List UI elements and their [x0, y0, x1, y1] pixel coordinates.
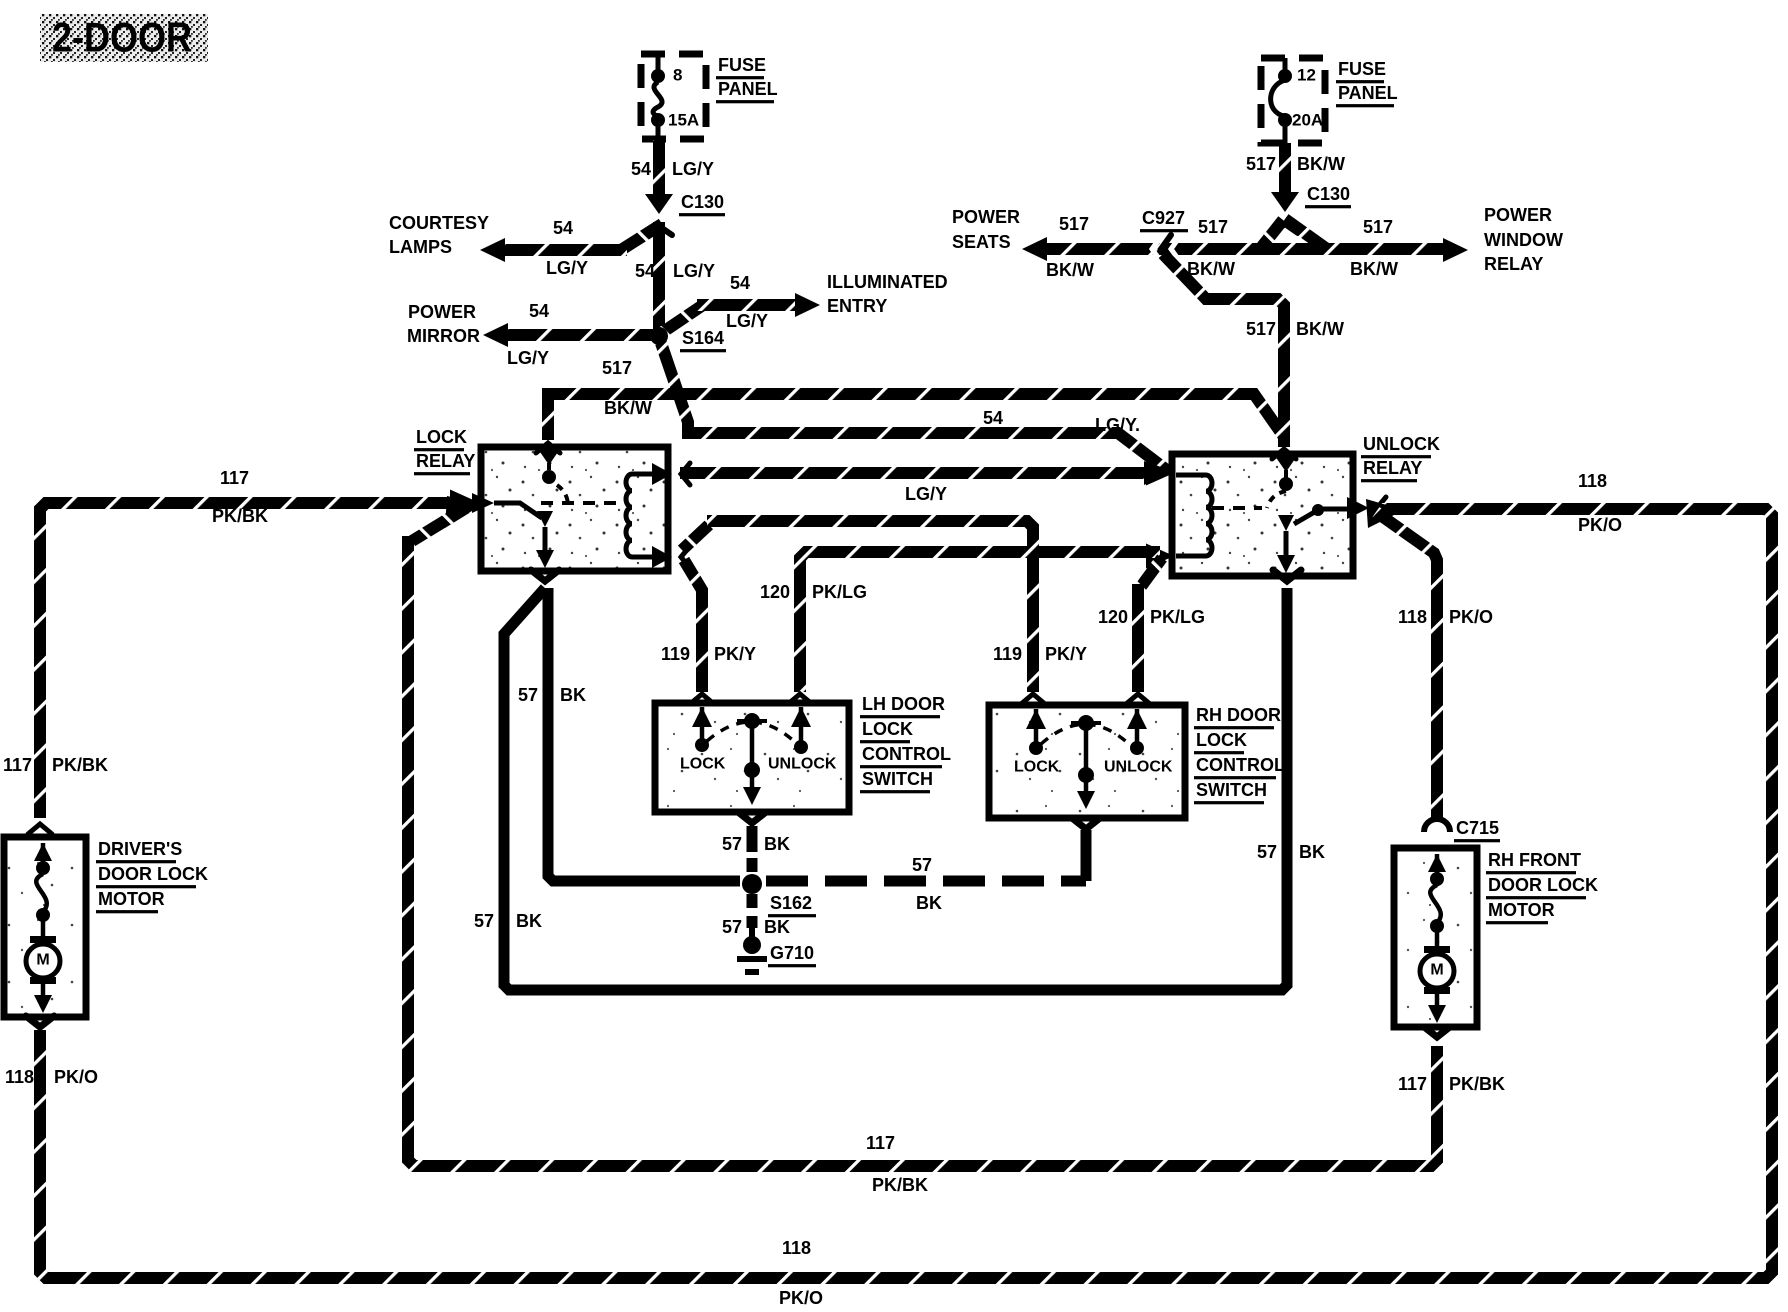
svg-text:G710: G710	[770, 943, 814, 963]
svg-text:PK/LG: PK/LG	[1150, 607, 1205, 627]
svg-text:LOCK: LOCK	[680, 756, 726, 773]
lock relay coil	[541, 474, 662, 557]
LH switch LOCK contact	[680, 707, 726, 773]
wire 54 LG/Y to courtesy lamps	[389, 213, 662, 278]
connector C130 (right)	[1271, 184, 1351, 233]
svg-text:S162: S162	[770, 893, 812, 913]
wire 118 PK/O unlock relay to RH front door lock motor via C715	[1366, 499, 1493, 818]
svg-text:POWER: POWER	[1484, 205, 1552, 225]
RH front door lock motor box	[1394, 848, 1477, 1027]
lock relay right-top pin (54)	[652, 463, 690, 485]
svg-text:POWER: POWER	[952, 207, 1020, 227]
svg-text:BK/W: BK/W	[1297, 154, 1345, 174]
svg-text:118: 118	[782, 1238, 811, 1258]
unlock relay left-bottom pin arrow	[1146, 544, 1174, 569]
svg-text:COURTESY: COURTESY	[389, 213, 489, 233]
svg-text:C130: C130	[1307, 184, 1350, 204]
svg-text:LOCK: LOCK	[1196, 730, 1247, 750]
svg-text:PK/BK: PK/BK	[1449, 1074, 1505, 1094]
svg-text:BK: BK	[516, 911, 542, 931]
connector C130 (left)	[645, 192, 725, 235]
svg-text:517: 517	[1246, 154, 1276, 174]
LH switch UNLOCK contact	[768, 707, 837, 773]
svg-text:RELAY: RELAY	[1484, 254, 1543, 274]
lock relay top pin (517)	[536, 443, 560, 484]
RH door lock control switch box	[989, 705, 1185, 818]
svg-text:POWER: POWER	[408, 302, 476, 322]
svg-text:LG/Y: LG/Y	[673, 261, 715, 281]
RH switch LOCK contact	[1014, 709, 1060, 776]
svg-text:BK: BK	[764, 917, 790, 937]
svg-text:MIRROR: MIRROR	[407, 326, 480, 346]
svg-text:LOCK: LOCK	[1014, 759, 1060, 776]
unlock relay top pin (517/54)	[1272, 449, 1297, 491]
svg-text:LH DOOR: LH DOOR	[862, 694, 945, 714]
svg-text:LG/Y: LG/Y	[726, 311, 768, 331]
wire 119 PK/Y lock relay to LH and RH switch LOCK pins	[661, 521, 1087, 704]
svg-text:ENTRY: ENTRY	[827, 296, 887, 316]
unlock relay contact arm	[1267, 491, 1348, 573]
svg-text:119: 119	[993, 644, 1022, 664]
svg-text:BK/W: BK/W	[1187, 259, 1235, 279]
svg-text:PK/O: PK/O	[1578, 515, 1622, 535]
fuse panel (right) dashed box	[1261, 58, 1325, 143]
svg-text:LG/Y.: LG/Y.	[1095, 415, 1140, 435]
svg-text:PK/BK: PK/BK	[212, 506, 268, 526]
splice S164	[650, 327, 726, 352]
svg-text:517: 517	[1363, 217, 1393, 237]
svg-text:C927: C927	[1142, 208, 1185, 228]
svg-text:LG/Y: LG/Y	[507, 348, 549, 368]
svg-text:SEATS: SEATS	[952, 232, 1011, 252]
svg-text:120: 120	[760, 582, 790, 602]
wire 57 BK S162 to RH switch (dashed run)	[766, 818, 1100, 913]
svg-text:20A: 20A	[1292, 110, 1323, 129]
fuse 8 15A symbol	[651, 54, 699, 139]
svg-text:WINDOW: WINDOW	[1484, 230, 1563, 250]
label LOCK RELAY	[414, 427, 475, 475]
svg-text:BK/W: BK/W	[1350, 259, 1398, 279]
wire 57 BK S162 down to ground	[722, 894, 790, 937]
svg-text:M: M	[36, 952, 49, 969]
wire 54 LG/Y C130 to splice S164	[635, 222, 715, 334]
svg-text:117: 117	[866, 1133, 895, 1153]
svg-text:54: 54	[553, 218, 573, 238]
svg-text:PK/O: PK/O	[779, 1288, 823, 1308]
connector C927	[1140, 208, 1188, 263]
svg-text:M: M	[1430, 962, 1443, 979]
label UNLOCK RELAY	[1361, 434, 1440, 482]
svg-text:C130: C130	[681, 192, 724, 212]
wire 54 LG/Y to power mirror	[407, 301, 655, 368]
svg-text:BK: BK	[764, 834, 790, 854]
svg-text:57: 57	[1257, 842, 1277, 862]
svg-text:S164: S164	[682, 328, 724, 348]
svg-text:517: 517	[602, 358, 632, 378]
driver's door lock motor box	[4, 824, 86, 1017]
svg-text:PANEL: PANEL	[1338, 83, 1398, 103]
svg-text:SWITCH: SWITCH	[862, 769, 933, 789]
svg-text:LOCK: LOCK	[416, 427, 467, 447]
unlock relay coil	[1176, 475, 1262, 556]
svg-text:118: 118	[1578, 471, 1607, 491]
svg-text:RELAY: RELAY	[1363, 458, 1422, 478]
ground G710	[737, 928, 816, 975]
svg-text:57: 57	[474, 911, 494, 931]
svg-text:517: 517	[1059, 214, 1089, 234]
svg-text:12: 12	[1297, 65, 1316, 84]
LH switch wiper	[707, 713, 796, 805]
svg-text:54: 54	[635, 261, 655, 281]
wire 517 BK/W across to lock relay	[548, 358, 1284, 440]
svg-text:517: 517	[1246, 319, 1276, 339]
svg-text:PK/O: PK/O	[54, 1067, 98, 1087]
RH switch UNLOCK contact	[1104, 709, 1173, 776]
svg-text:LG/Y: LG/Y	[546, 258, 588, 278]
svg-text:UNLOCK: UNLOCK	[1104, 759, 1173, 776]
svg-text:PK/BK: PK/BK	[52, 755, 108, 775]
svg-text:LAMPS: LAMPS	[389, 237, 452, 257]
splice S162	[742, 874, 816, 917]
svg-text:RELAY: RELAY	[416, 451, 475, 471]
svg-text:PK/Y: PK/Y	[714, 644, 756, 664]
label FUSE PANEL (left)	[716, 55, 778, 103]
label FUSE PANEL (right)	[1336, 59, 1398, 107]
svg-text:ILLUMINATED: ILLUMINATED	[827, 272, 948, 292]
svg-text:120: 120	[1098, 607, 1128, 627]
svg-text:117: 117	[220, 468, 249, 488]
svg-text:LG/Y: LG/Y	[672, 159, 714, 179]
unlock relay left-top pin arrow	[1146, 461, 1174, 486]
svg-text:57: 57	[722, 917, 742, 937]
label RH FRONT DOOR LOCK MOTOR	[1486, 850, 1598, 924]
svg-text:BK/W: BK/W	[1296, 319, 1344, 339]
svg-text:57: 57	[518, 685, 538, 705]
wire 57 BK unlock relay bottom pin	[1273, 570, 1301, 581]
label DRIVER'S DOOR LOCK MOTOR	[96, 839, 208, 913]
svg-text:SWITCH: SWITCH	[1196, 780, 1267, 800]
svg-text:PK/O: PK/O	[1449, 607, 1493, 627]
wire 57 BK inner branch lock relay to S162 run	[518, 588, 740, 881]
svg-text:117: 117	[3, 755, 32, 775]
wire 118 PK/O driver motor to unlock relay (outer loop)	[5, 471, 1772, 1308]
wire 117 PK/BK lock relay to driver door lock motor	[3, 468, 483, 818]
svg-text:BK/W: BK/W	[604, 398, 652, 418]
lock relay box	[481, 447, 668, 571]
svg-text:117: 117	[1398, 1074, 1427, 1094]
svg-text:CONTROL: CONTROL	[1196, 755, 1285, 775]
svg-text:BK/W: BK/W	[1046, 260, 1094, 280]
svg-text:PANEL: PANEL	[718, 79, 778, 99]
svg-text:RH DOOR: RH DOOR	[1196, 705, 1281, 725]
svg-text:BK: BK	[560, 685, 586, 705]
svg-text:LOCK: LOCK	[862, 719, 913, 739]
svg-text:DRIVER'S: DRIVER'S	[98, 839, 182, 859]
svg-text:PK/Y: PK/Y	[1045, 644, 1087, 664]
svg-text:54: 54	[730, 273, 750, 293]
svg-text:15A: 15A	[668, 110, 699, 129]
wire 57 BK LH switch to splice S162	[722, 812, 790, 872]
lock relay contact arm	[472, 485, 568, 568]
RH motor internals	[1420, 854, 1454, 1023]
unlock relay box	[1172, 454, 1353, 576]
svg-text:DOOR LOCK: DOOR LOCK	[1488, 875, 1598, 895]
svg-text:118: 118	[1398, 607, 1427, 627]
svg-text:BK: BK	[1299, 842, 1325, 862]
svg-text:MOTOR: MOTOR	[1488, 900, 1555, 920]
svg-text:517: 517	[1198, 217, 1228, 237]
svg-text:FUSE: FUSE	[1338, 59, 1386, 79]
fuse 12 20A symbol	[1271, 58, 1324, 143]
svg-text:118: 118	[5, 1067, 34, 1087]
LH door lock control switch box	[655, 703, 849, 812]
wire 54 LG/Y to illuminated entry	[663, 272, 948, 332]
svg-text:8: 8	[673, 65, 682, 84]
svg-text:PK/BK: PK/BK	[872, 1175, 928, 1195]
svg-text:C715: C715	[1456, 818, 1499, 838]
svg-text:UNLOCK: UNLOCK	[768, 756, 837, 773]
wire 517 BK/W fuse panel to C130 (right)	[1246, 143, 1345, 196]
wire 57 BK outer loop lock relay to unlock relay	[474, 588, 1325, 990]
wire 117 PK/BK lock relay to RH front door lock motor (inner loop)	[408, 508, 1505, 1195]
wire 517 BK/W C927 down to unlock relay	[1163, 254, 1344, 447]
connector C715	[1424, 818, 1500, 842]
svg-text:RH FRONT: RH FRONT	[1488, 850, 1581, 870]
svg-text:57: 57	[722, 834, 742, 854]
wire 54 LG/Y lock relay to unlock relay	[680, 461, 1168, 504]
lock relay right-bottom pin (119)	[652, 546, 690, 568]
label RH DOOR LOCK CONTROL SWITCH	[1194, 705, 1285, 804]
svg-text:FUSE: FUSE	[718, 55, 766, 75]
title 2-DOOR	[40, 14, 208, 62]
svg-text:54: 54	[631, 159, 651, 179]
driver's motor internals	[26, 843, 60, 1013]
svg-text:PK/LG: PK/LG	[812, 582, 867, 602]
wire 54 LG/Y fuse panel to C130	[631, 140, 714, 200]
RH switch wiper	[1041, 715, 1130, 809]
svg-text:LG/Y: LG/Y	[905, 484, 947, 504]
fuse panel (left) dashed box	[641, 54, 706, 139]
wire 54 LG/Y S164 down and across to unlock relay	[661, 343, 1168, 471]
label LH DOOR LOCK CONTROL SWITCH	[860, 694, 951, 793]
wire 57 BK lock relay bottom pin	[531, 570, 559, 581]
unlock relay right pin (118)	[1347, 497, 1386, 519]
svg-text:54: 54	[529, 301, 549, 321]
svg-text:DOOR LOCK: DOOR LOCK	[98, 864, 208, 884]
wire 517 BK/W C130 split to power seats and power window relay	[952, 205, 1563, 280]
wire 120 PK/LG unlock relay to LH and RH switch UNLOCK pins	[760, 552, 1205, 704]
svg-text:BK: BK	[916, 893, 942, 913]
svg-text:MOTOR: MOTOR	[98, 889, 165, 909]
svg-text:2-DOOR: 2-DOOR	[52, 14, 192, 61]
svg-text:54: 54	[983, 408, 1003, 428]
svg-text:CONTROL: CONTROL	[862, 744, 951, 764]
svg-text:57: 57	[912, 855, 932, 875]
svg-text:UNLOCK: UNLOCK	[1363, 434, 1440, 454]
svg-text:119: 119	[661, 644, 690, 664]
